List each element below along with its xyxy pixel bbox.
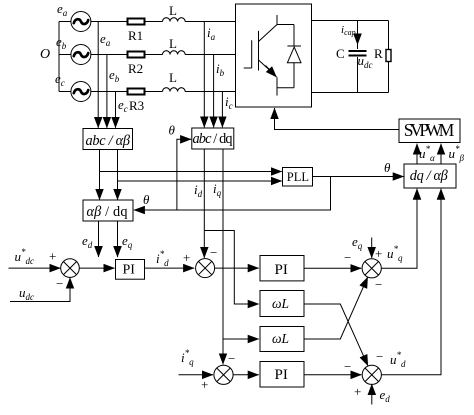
svg-text:id: id bbox=[194, 182, 203, 199]
svg-text:ic: ic bbox=[225, 94, 233, 111]
svg-text:ia: ia bbox=[207, 25, 216, 42]
svg-text:−: − bbox=[210, 245, 217, 260]
svg-text:eb: eb bbox=[109, 67, 120, 84]
svg-text:αβ / dq: αβ / dq bbox=[87, 204, 128, 220]
svg-text:ec: ec bbox=[55, 71, 65, 88]
svg-text:R: R bbox=[374, 46, 383, 61]
svg-text:ed: ed bbox=[82, 233, 93, 250]
svg-text:−: − bbox=[228, 351, 235, 366]
svg-text:L: L bbox=[169, 70, 177, 85]
svg-text:eq: eq bbox=[122, 233, 133, 250]
svg-text:+: + bbox=[354, 384, 361, 399]
svg-text:eq: eq bbox=[352, 234, 363, 251]
svg-text:u*d: u*d bbox=[390, 350, 406, 369]
svg-text:PI: PI bbox=[123, 263, 136, 278]
svg-text:−: − bbox=[344, 250, 351, 265]
svg-text:−: − bbox=[376, 349, 383, 364]
svg-text:eb: eb bbox=[56, 34, 67, 51]
svg-text:udc: udc bbox=[19, 285, 34, 302]
svg-text:u*β: u*β bbox=[449, 144, 465, 163]
svg-text:ec: ec bbox=[118, 97, 128, 114]
svg-text:i*q: i*q bbox=[181, 348, 194, 367]
svg-text:icap: icap bbox=[341, 24, 356, 37]
svg-text:u*dc: u*dc bbox=[15, 247, 35, 266]
svg-text:dq / αβ: dq / αβ bbox=[410, 168, 449, 184]
svg-text:abc / αβ: abc / αβ bbox=[86, 133, 131, 149]
svg-text:i*d: i*d bbox=[156, 249, 169, 268]
svg-text:+: + bbox=[201, 377, 208, 392]
svg-text:+: + bbox=[183, 250, 190, 265]
svg-text:R3: R3 bbox=[129, 98, 144, 113]
svg-text:R2: R2 bbox=[128, 61, 143, 76]
svg-text:PI: PI bbox=[275, 367, 288, 383]
svg-text:−: − bbox=[344, 359, 351, 374]
svg-text:+: + bbox=[375, 246, 382, 261]
svg-text:ωL: ωL bbox=[272, 331, 289, 346]
svg-text:O: O bbox=[40, 47, 50, 62]
svg-text:ωL: ωL bbox=[272, 296, 289, 311]
svg-text:C: C bbox=[336, 46, 345, 61]
svg-text:ed: ed bbox=[380, 387, 391, 404]
svg-text:u*α: u*α bbox=[419, 144, 435, 163]
svg-text:u*q: u*q bbox=[387, 244, 403, 263]
svg-text:θ: θ bbox=[384, 160, 391, 175]
svg-text:θ: θ bbox=[169, 123, 176, 138]
svg-text:R1: R1 bbox=[128, 28, 143, 43]
svg-text:ib: ib bbox=[216, 61, 225, 78]
svg-text:θ: θ bbox=[143, 192, 150, 207]
svg-text:L: L bbox=[169, 36, 177, 51]
svg-text:abc / dq: abc / dq bbox=[193, 131, 233, 147]
svg-text:+: + bbox=[49, 249, 56, 264]
svg-text:−: − bbox=[56, 276, 63, 291]
svg-text:ea: ea bbox=[57, 1, 68, 18]
svg-text:SVPWM: SVPWM bbox=[404, 120, 455, 140]
svg-text:PI: PI bbox=[275, 262, 288, 278]
svg-text:ea: ea bbox=[100, 31, 111, 48]
svg-text:−: − bbox=[375, 277, 382, 292]
svg-text:L: L bbox=[169, 3, 177, 18]
svg-text:iq: iq bbox=[213, 181, 222, 198]
svg-text:PLL: PLL bbox=[287, 170, 309, 184]
